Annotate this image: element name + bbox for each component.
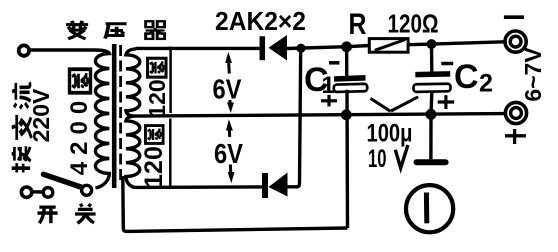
wire: C2 column above plates <box>430 44 434 72</box>
svg-text:220V: 220V <box>28 88 54 142</box>
wire: C1 column above plates <box>345 47 349 77</box>
switch S1 right contact <box>82 185 92 195</box>
winding extent line (top secondary) <box>169 47 172 114</box>
6V arrow down (top winding) <box>227 100 234 113</box>
wire: D2 anode up to top rail <box>288 49 301 187</box>
wire: resistor to C2 node <box>408 42 431 46</box>
junction dot C1 top <box>341 41 352 52</box>
minus sign above C2 <box>441 62 453 66</box>
capacitor C1 bottom curved plate <box>334 84 368 92</box>
terminal AC input top <box>19 45 29 55</box>
junction dot C2 top <box>427 39 437 49</box>
diode D1 triangle (pointing left) <box>269 35 288 61</box>
transformer T1 secondary winding S1 (120 turns, top) <box>126 49 140 116</box>
label 开关 (switch) <box>37 204 95 223</box>
6V arrow down (bottom winding) <box>228 165 235 184</box>
figure number circled 1 <box>406 185 453 232</box>
switch S1 left contact <box>43 188 53 198</box>
svg-text:6~7V: 6~7V <box>520 47 546 102</box>
wire: C2 node to output terminal <box>432 42 505 44</box>
wire: D1 anode to resistor node <box>287 47 347 49</box>
svg-text:R: R <box>349 8 367 41</box>
capacitor C2 top plate <box>415 71 450 77</box>
wire: C2 column below plates <box>429 91 433 115</box>
resistor R 120Ω body (box with diagonal) <box>369 39 408 53</box>
label 4200圈 (4200 turns), rotated <box>66 69 93 175</box>
svg-text:120Ω: 120Ω <box>388 9 439 39</box>
ground bar <box>417 159 446 165</box>
wire: center-tap rail to bottom output terminal <box>134 114 504 117</box>
label 变压器 (transformer) <box>66 21 164 39</box>
capacitor C2 bottom curved plate <box>413 84 450 92</box>
minus sign above C1 <box>329 61 340 65</box>
plus sign below bottom output terminal <box>505 129 526 144</box>
svg-text:100μ: 100μ <box>367 120 413 148</box>
handwritten V of 10V <box>395 145 408 168</box>
output terminal bottom (positive) <box>505 102 526 123</box>
wire: secondary top to diode D1 <box>136 47 260 50</box>
svg-text:6V: 6V <box>214 138 243 169</box>
wire: input terminal to switch contact <box>32 190 44 194</box>
label 120圈 bottom winding, rotated <box>140 126 168 188</box>
wire: ground drop from C2 bottom node <box>429 115 433 160</box>
svg-text:10: 10 <box>368 145 387 173</box>
transformer T1 primary winding (4200 turns) <box>30 50 110 188</box>
6V arrow up (bottom winding) <box>226 119 233 137</box>
transformer T1 secondary winding S2 (120 turns, bottom) <box>126 116 140 187</box>
junction dot at D2 riser / top rail <box>296 44 305 53</box>
svg-text:120: 120 <box>144 79 170 117</box>
diode D2 cathode bar <box>262 173 268 198</box>
wire: bottom rail (core/common return) <box>123 176 348 231</box>
label 120圈 top winding, rotated <box>144 58 170 117</box>
junction dot C2 bottom <box>426 109 437 120</box>
diode D1 cathode bar <box>260 36 266 60</box>
output terminal top (negative) <box>505 31 526 52</box>
capacitor C1 top plate <box>334 78 366 79</box>
leader line from 100μ label to C2 <box>391 97 418 111</box>
svg-text:2AK2×2: 2AK2×2 <box>215 6 306 36</box>
switch S1 blade (open) <box>44 174 83 187</box>
plus sign below C1 <box>321 95 337 107</box>
junction dot C1 bottom / center tap <box>341 109 352 120</box>
plus sign below C2 <box>438 95 455 109</box>
wire: bottom lead to diode D2 <box>138 185 263 189</box>
transformer core (solid lamination line) <box>112 44 117 188</box>
svg-text:C: C <box>454 58 479 96</box>
terminal AC input bottom <box>21 187 31 197</box>
leader line from 100μ label to C1 <box>371 98 391 111</box>
label 接交流 (connect AC), rotated <box>12 82 32 172</box>
wire: C1 column below plates to bottom rail <box>345 90 349 228</box>
svg-text:2: 2 <box>479 70 493 98</box>
diode D2 triangle (pointing left) <box>269 173 288 197</box>
svg-text:4200: 4200 <box>66 94 93 175</box>
winding extent line (bottom secondary) <box>169 119 172 188</box>
wire: node to resistor <box>347 46 370 47</box>
transformer core (dashed lamination line) <box>119 45 122 181</box>
svg-text:6V: 6V <box>213 74 242 105</box>
minus sign above top output terminal <box>504 15 524 19</box>
svg-text:120: 120 <box>140 146 168 188</box>
6V arrow up (top winding) <box>225 52 232 74</box>
